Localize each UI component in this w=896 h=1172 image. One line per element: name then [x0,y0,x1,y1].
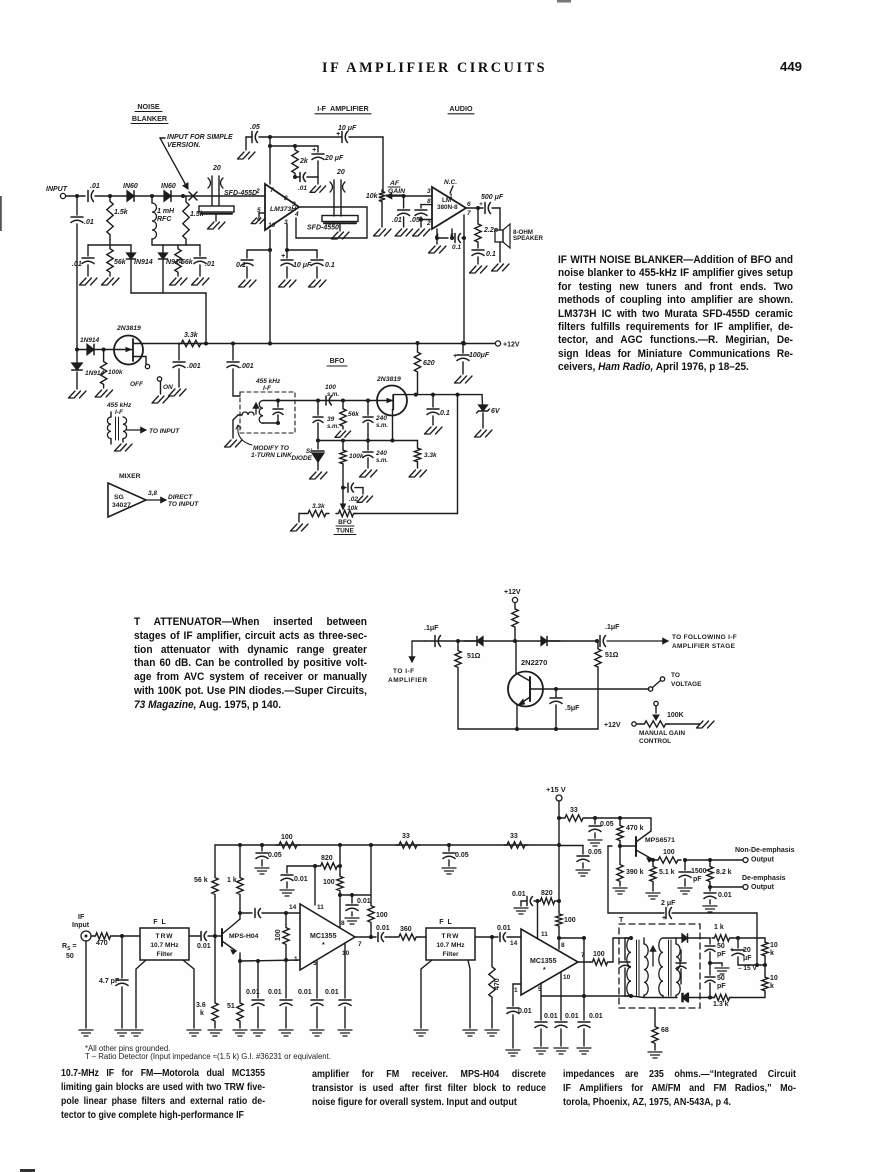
node att5 [554,727,558,731]
svg-text:TO I-F: TO I-F [393,668,415,675]
ground 68 [648,1052,662,1058]
wire emitter row [239,953,241,961]
svg-text:33: 33 [510,833,518,840]
node rail5 [416,341,420,345]
resistor 8.2k [709,860,711,864]
capacitor 100uF [462,343,464,353]
svg-text:3,8: 3,8 [148,490,157,497]
wire 846 stub [559,845,583,847]
svg-text:100k: 100k [349,453,364,460]
ground pin5b [534,1048,548,1054]
resistor 3.3k rail [178,340,204,346]
svg-text:0.01: 0.01 [544,1013,558,1020]
op-amp U2 LM380N-8 [432,187,466,229]
svg-text:100: 100 [564,917,576,924]
arrow to input [127,429,146,431]
svg-text:51Ω: 51Ω [605,652,619,659]
resistor 100 out c [590,959,610,965]
resistor 620 [417,343,419,349]
wire det sec top [663,937,682,939]
svg-text:380N-8: 380N-8 [437,204,458,211]
capacitor .001 first [178,344,180,361]
svg-text:10.7 MHz: 10.7 MHz [436,942,465,949]
svg-text:+: + [336,131,340,138]
X coupling mark [189,192,197,200]
resistor 100 371 [368,903,374,925]
ground pin5 [259,212,265,214]
svg-text:10k: 10k [347,505,358,512]
input terminal [60,193,65,198]
svg-text:0.01: 0.01 [325,989,339,996]
diode att left [477,637,483,646]
potentiometer 10k af gain [379,190,385,203]
capacitor 39 sm [317,401,319,416]
svg-text:MANUAL GAIN: MANUAL GAIN [639,730,685,737]
svg-text:*: * [543,967,546,974]
arrow T1 [255,403,257,414]
potentiometer 100K [641,721,669,727]
svg-text:Filter: Filter [156,951,173,958]
capacitor 0.1 out [477,245,479,248]
svg-text:470: 470 [494,978,501,990]
resistor 820 a [339,858,341,866]
ground row1 cap [80,278,98,285]
wire pin10 b [560,972,562,1020]
svg-text:0.05: 0.05 [455,852,469,859]
capacitor 0.01 deemph [709,887,711,891]
svg-text:0.01: 0.01 [512,891,526,898]
ground deemph [703,906,717,912]
wire D2 to X [171,195,265,197]
svg-text:– 15 V: – 15 V [738,965,757,972]
svg-text:+: + [281,253,285,260]
capacitor .01 af [403,196,405,208]
ground 51 c [233,1030,247,1036]
node c5 [369,935,373,939]
wire att left [412,640,425,642]
svg-text:8: 8 [561,942,565,949]
filter FL1 [140,928,189,960]
node deemph [708,885,712,889]
svg-text:IN60: IN60 [123,183,138,190]
ground 0.05 r2 [442,868,456,874]
resistor 33 818 [562,815,586,821]
svg-text:0.01: 0.01 [357,898,371,905]
svg-text:10: 10 [268,222,276,229]
svg-text:240: 240 [375,415,387,422]
capacitor 0.05 r1 [261,845,263,851]
capacitor 240 sm lower [367,441,369,451]
svg-text:s.m.: s.m. [376,423,388,429]
svg-text:0.01: 0.01 [718,892,732,899]
node rail3 [204,342,208,346]
wire pin3 down [286,224,288,250]
node r3 [338,843,342,847]
arrow mixer out [146,499,166,501]
caption circuit 3 column 3 [563,1067,796,1109]
svg-text:0.01: 0.01 [298,989,312,996]
svg-text:51Ω: 51Ω [467,653,481,660]
svg-text:20: 20 [743,947,751,954]
svg-text:Non-De-emphasis: Non-De-emphasis [735,847,795,854]
ground 3.3k bfo [409,470,427,477]
svg-text:INPUT: INPUT [46,186,68,193]
svg-text:De-emphasis: De-emphasis [742,875,786,882]
resistor 470 c [491,937,493,962]
svg-text:3.3k: 3.3k [184,332,199,339]
resistor 1k det [712,935,732,941]
node 1500 [683,858,687,862]
svg-text:TO INPUT: TO INPUT [149,428,180,435]
ground row1 res [102,278,120,285]
caption circuit 1 [558,254,793,375]
svg-text:AF: AF [389,180,400,187]
svg-text:DIRECT: DIRECT [168,494,193,501]
ground 0.01 895 [345,918,359,924]
op-amp U1 LM373H [265,184,299,230]
filter SFD-455D first [199,206,234,212]
svg-text:CONTROL: CONTROL [639,738,671,745]
leader arrow to X [160,138,188,189]
capacitor .01 fb [293,175,297,179]
svg-text:1 mH: 1 mH [157,208,175,215]
node rail6 [461,341,465,345]
wire fb loop [296,207,367,238]
ground 50pf mid [710,962,722,964]
wire pin11 b [537,901,539,939]
resistor 2k [292,146,298,177]
wire input rail A [77,349,120,351]
wire 371 down [370,845,372,895]
ground fl2 left [414,1030,428,1036]
ground 0.1 pin3 [309,280,327,287]
filter FL2 legs [421,960,432,1028]
svg-text:240: 240 [375,450,387,457]
wire pin7 up [269,137,271,184]
resistor 100k bias [103,350,105,359]
svg-text:OFF: OFF [130,381,144,388]
svg-text:1 k: 1 k [227,877,237,884]
svg-text:1: 1 [449,193,453,200]
svg-text:0.01: 0.01 [565,1013,579,1020]
wire C1 to D1 [95,195,126,197]
ground 1500 [678,888,692,894]
capacitor 0.01 820a [281,874,293,876]
svg-text:2N3819: 2N3819 [116,325,141,332]
wire 2k top [270,145,318,147]
wire drain row [407,394,482,396]
svg-text:1: 1 [514,987,518,994]
svg-text:10k: 10k [366,193,379,200]
wire bfo link out [278,400,377,402]
svg-text:s.m.: s.m. [327,392,339,398]
svg-text:MPS6571: MPS6571 [645,837,675,844]
svg-text:20: 20 [212,165,221,172]
svg-text:Output: Output [751,857,775,864]
wire subrow2 [152,244,200,246]
svg-text:7: 7 [270,187,274,194]
diode det top [682,934,688,942]
svg-text:8: 8 [427,198,431,205]
svg-text:+12V: +12V [503,342,520,349]
resistor 33 rail2 [504,842,528,848]
svg-text:0.01: 0.01 [268,989,282,996]
capacitor 0.01 in [189,935,200,937]
switch off-on [145,357,147,365]
svg-text:k: k [770,950,774,957]
svg-text:NOISE: NOISE [137,102,160,111]
svg-text:1N914: 1N914 [80,337,100,344]
svg-text:100k: 100k [108,369,123,376]
capacitor 10uF pin3 [286,250,288,258]
resistor 100 b [558,901,560,912]
ground 0.01 820a [280,890,294,896]
transistor Q2 2N3819 bfo [377,386,407,416]
ground af pot [374,229,392,236]
resistor 51 c [239,961,241,1000]
resistor 820 b [538,898,557,904]
capacitor 0.1 pin10 [247,249,270,251]
capacitor 0.01 in2 [499,933,501,942]
wire fb tall [607,846,609,913]
resistor 1.5k right [183,196,189,245]
diode IN914 row2 [162,245,164,252]
svg-text:VOLTAGE: VOLTAGE [671,681,702,688]
svg-text:2: 2 [255,188,260,195]
svg-text:4.7 pF: 4.7 pF [99,978,120,985]
svg-text:TRW: TRW [156,933,174,940]
svg-text:.05: .05 [250,124,260,131]
capacitor .01 row1 [87,245,89,256]
ground filter1 [208,222,226,229]
ground 390k [613,888,627,894]
op-amp U3 MC1355 first [300,904,355,970]
svg-text:*: * [322,942,325,949]
svg-text:3.6: 3.6 [196,1002,206,1009]
svg-text:k: k [770,983,774,990]
resistor 68 [652,1024,658,1046]
capacitor .02 [343,487,346,489]
svg-text:14: 14 [289,904,297,911]
ground manual [697,721,715,728]
node r2 [260,843,264,847]
svg-text:56k: 56k [114,259,127,266]
wire base [620,845,636,847]
node c3 [238,911,242,915]
svg-text:0.01: 0.01 [589,1013,603,1020]
resistor 100 rail [276,842,300,848]
svg-text:56k: 56k [181,259,194,266]
wire det in top [612,938,614,962]
wire pin1 b [513,983,521,985]
svg-text:100: 100 [376,912,388,919]
wire manual [636,723,641,725]
diode Si [317,441,319,450]
wire fb box [584,995,631,997]
node att1 [456,639,460,643]
resistor 390k [619,846,621,862]
capacitor .05 top [246,136,252,138]
resistor 100 em [655,857,681,863]
svg-text:100: 100 [663,849,675,856]
wire det top out [702,937,710,939]
capacitor 0.01 895 [351,895,353,903]
ground 56k bfo [335,431,351,437]
svg-text:10 μF: 10 μF [293,262,312,269]
terminal non-deemphasis [743,858,748,863]
svg-text:MC1355: MC1355 [310,933,337,940]
svg-text:SPEAKER: SPEAKER [513,235,543,242]
ground 470 c [485,1030,499,1036]
transistor Q3 2N2270 [508,672,543,707]
transformer det primary [627,938,631,996]
svg-text:8: 8 [341,920,345,927]
svg-text:2 μF: 2 μF [661,900,676,907]
bottom left mark [20,1169,35,1172]
transistor Q1 2N3819 [114,336,143,365]
wire src row [318,440,418,442]
ground speaker [492,264,510,271]
diode 1N914 shunt [76,350,78,363]
wire top right down [382,137,384,191]
node emitter [651,858,655,862]
resistor 3.6k c [214,936,216,1000]
svg-text:360: 360 [400,926,412,933]
svg-text:.01: .01 [392,217,402,224]
resistor 33 rail1 [396,842,420,848]
wire fl2 out [475,936,498,938]
svg-text:34027: 34027 [112,502,131,509]
svg-text:s.m.: s.m. [327,424,339,430]
capacitor 0.01 out1 [377,933,379,942]
wire det bottom center [654,1008,656,1024]
svg-text:F L: F L [153,919,167,926]
capacitor cpl1 [240,912,252,914]
wire 340 down [339,845,341,858]
capacitor .01 row2 [199,245,201,256]
ground .05 af [413,229,431,236]
svg-text:0.1: 0.1 [452,244,461,251]
filter SFD-455D second [322,216,358,222]
ground pin4 [429,246,447,253]
svg-text:56k: 56k [348,411,359,418]
svg-text:3.3k: 3.3k [312,503,325,510]
wire +15 down [558,801,560,901]
svg-text:455 kHz: 455 kHz [106,402,132,409]
wire 820 left [287,865,318,867]
wire bottom fb [541,995,584,997]
capacitor 0.01 820b [520,901,522,906]
svg-text:AMPLIFIER STAGE: AMPLIFIER STAGE [672,643,736,650]
wire att rail [425,640,597,642]
resistor 51 right [597,641,599,646]
wire fb right b [559,937,584,939]
node c1 [120,934,124,938]
capacitor tank bfo [277,401,279,408]
resistor 56k c [214,845,216,875]
node rail2 [102,348,106,352]
transformer T1 bfo link [242,412,254,415]
ground 0.1 out [470,266,488,273]
svg-text:50: 50 [717,943,725,950]
ground .001 [169,389,187,396]
svg-text:0.1: 0.1 [325,262,335,269]
capacitor det1 [625,937,631,939]
ground 100k [95,390,113,397]
svg-text:1.5k: 1.5k [114,209,129,216]
svg-text:0.01: 0.01 [497,925,511,932]
ground row2 cap [192,278,210,285]
diode 1N914 series [87,344,94,355]
ground 0.05 818 [588,840,602,846]
svg-text:0.1: 0.1 [486,251,496,258]
svg-text:10: 10 [770,975,778,982]
svg-text:MIXER: MIXER [119,473,141,480]
ground 20uF [317,177,319,184]
node A2 [150,194,154,198]
svg-text:1500: 1500 [691,868,707,875]
svg-text:SG: SG [114,494,124,501]
svg-text:Output: Output [751,884,775,891]
resistor 470k [619,818,621,823]
ground t2 [115,444,133,451]
capacitor 50pF top [709,938,711,944]
svg-text:100K: 100K [667,712,684,719]
svg-text:.01: .01 [84,219,94,226]
svg-text:100: 100 [281,834,293,841]
svg-text:Input: Input [72,922,90,929]
svg-text:5.1 k: 5.1 k [659,869,675,876]
svg-text:.5μF: .5μF [565,705,580,712]
svg-text:33: 33 [402,833,410,840]
left edge mark [0,196,2,231]
ground .01 af [395,229,413,236]
wire feedback 913 [608,912,664,914]
node att3 [595,639,599,643]
resistor 56k bfo [342,401,344,407]
svg-text:RS =: RS = [62,943,76,952]
capacitor .5uF att [555,689,557,697]
capacitor 0.1 pin3 [316,250,318,258]
svg-text:.1μF: .1μF [424,625,439,632]
node r1 [238,843,242,847]
svg-text:1-TURN LINK: 1-TURN LINK [251,452,293,459]
svg-text:.01: .01 [298,185,307,192]
svg-text:s.m.: s.m. [376,458,388,464]
diode IN60 second [164,191,171,202]
ground row2 res [170,278,188,285]
capacitor 0.1 pin5 [454,234,456,243]
resistor 3.3k tune [305,510,329,516]
svg-text:0.01: 0.01 [294,876,308,883]
transformer det secondary [659,938,663,996]
capacitor 50pF bottom [709,963,711,975]
capacitor 20uF [317,146,319,152]
ground 10uF pin3 [279,280,297,287]
svg-text:2N2270: 2N2270 [521,658,547,667]
svg-text:11: 11 [317,904,324,911]
diode det bottom [682,993,688,1001]
svg-text:2N3819: 2N3819 [376,376,401,383]
wire to tune [342,488,344,506]
capacitor 0.01 pin10b [555,1021,567,1023]
transformer T2 coupling [107,417,111,439]
filter FL1 legs [136,960,146,1028]
ground fl1 right [187,1030,201,1036]
resistor 1.5k left [108,194,112,198]
svg-text:0.01: 0.01 [376,925,390,932]
capacitor 0.01 fbb [578,1021,590,1023]
